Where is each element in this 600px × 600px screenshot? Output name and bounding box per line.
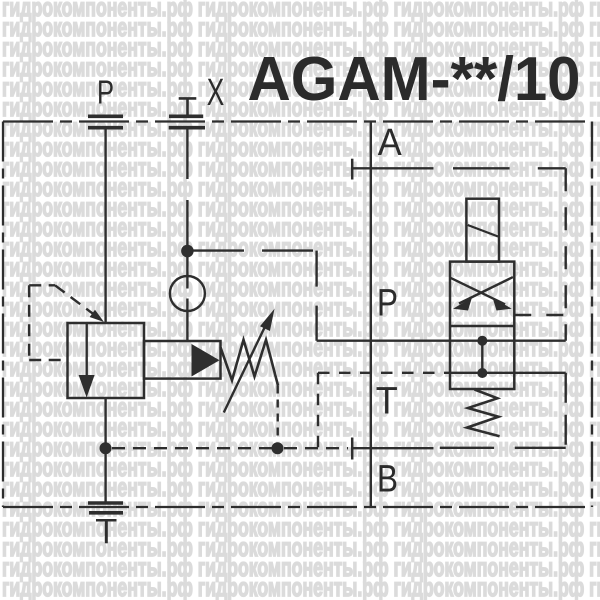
port B tick [351,438,354,460]
svg-text:AGAM-**/10: AGAM-**/10 [248,45,581,114]
pilot branch into valve (dash) [514,314,565,316]
gauge circle [170,276,205,311]
node dot upper [477,336,487,346]
pilot dashed diagonal [55,285,96,316]
wire through gauge [186,255,188,342]
boundary top [3,120,592,122]
spring right valve [467,390,500,437]
head diagonal [468,225,498,237]
pilot wire corner down (long dash) [315,251,317,341]
valve U2 body [450,262,514,389]
node dot lower [477,368,487,378]
spring left valve [221,340,279,386]
divider line [450,325,514,327]
port X plug [179,98,197,116]
adjust arrow [224,320,268,412]
pilot wire vertical x318 (short dash) [317,373,319,448]
wire A-vertical main [370,122,372,508]
node X junction dot [181,245,194,258]
svg-text:гидрокомпоненты.рф гидрокомпон: гидрокомпоненты.рф гидрокомпоненты.рф ги… [2,572,600,600]
inner flow line [85,323,87,376]
node dot B-mid [272,442,284,454]
wire B-level left dashes [112,447,272,449]
link between dots [481,341,483,373]
wire P down [104,129,106,323]
boundary bottom [3,506,592,508]
valve U1 main box [68,323,145,398]
wire B-level solid [352,447,433,449]
port X bars [169,116,205,127]
port T bottom bars [88,503,123,513]
boundary left [2,122,4,508]
port T stem [105,521,108,543]
pilot rect with triangle [144,341,221,379]
pilot wire dot to corner (long dash) [193,249,317,251]
svg-text:B: B [377,459,398,501]
pilot dashed box left [29,285,67,360]
pilot triangle [192,344,220,377]
pilot wire X down (long dash) [186,129,188,251]
wire T-level right [514,372,565,374]
wire P-level horizontal [317,340,566,342]
wire B-level right dashes [440,447,566,449]
crossed arrows [451,277,513,304]
port P bars [88,116,123,127]
spring tail dashed down [277,386,279,442]
valve U2 pilot head box [466,199,499,262]
wire T-level through body [450,372,514,374]
svg-text:X: X [207,72,225,114]
svg-text:A: A [378,122,403,164]
pilot wire T-level left (short dash) [318,372,450,374]
wire A-level solid [352,167,433,169]
svg-text:T: T [376,381,398,423]
wire P below box [104,398,106,502]
node dot B-left [100,442,112,454]
svg-text:P: P [97,74,114,111]
boundary right [591,122,593,508]
pilot wire right vertical lower (dash) [565,373,567,448]
pilot wire right vertical upper (dash) [565,168,567,340]
wire A-level dashes [453,167,566,169]
inner arrow [79,375,95,398]
svg-text:P: P [377,282,398,324]
port A tick [351,159,354,180]
